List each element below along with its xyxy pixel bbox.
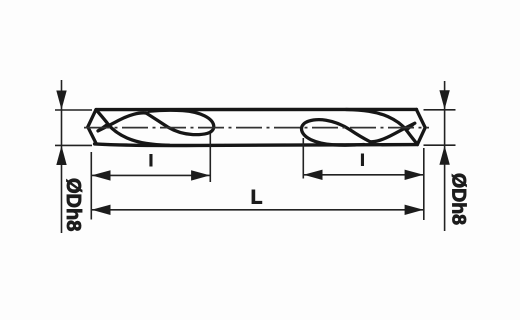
- svg-text:ØDh8: ØDh8: [62, 178, 84, 231]
- svg-text:L: L: [251, 188, 263, 209]
- svg-text:l: l: [149, 153, 153, 170]
- svg-text:l: l: [360, 152, 364, 169]
- svg-text:ØDh8: ØDh8: [448, 173, 470, 225]
